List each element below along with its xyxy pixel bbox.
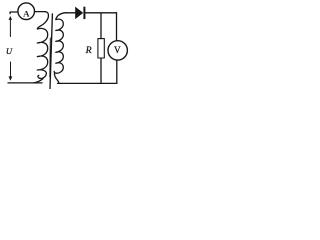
transformer T1 secondary winding (54, 13, 66, 74)
svg-text:U: U (6, 46, 13, 56)
voltage U arrow down shaft (10, 62, 12, 77)
wire bottom-left rail (8, 82, 42, 84)
voltage U arrowhead up (9, 16, 13, 20)
wire secondary top to diode (66, 12, 75, 14)
ammeter A1 circle (18, 3, 35, 20)
diode D1 cathode bar (83, 7, 85, 19)
voltmeter V1 circle (108, 41, 127, 60)
svg-text:V: V (114, 45, 121, 55)
wire primary to bottom-left rail (34, 79, 43, 83)
wire bottom-right rail (58, 82, 117, 84)
transformer core (50, 14, 52, 89)
diode D1 triangle (75, 7, 83, 20)
transformer core line left (49, 38, 52, 77)
wire R branch bottom (100, 58, 102, 83)
svg-text:R: R (85, 45, 92, 56)
transformer T1 primary winding (37, 12, 48, 79)
svg-text:A: A (23, 8, 30, 18)
voltage U arrowhead down (9, 76, 13, 80)
wire ammeter to transformer primary (35, 11, 45, 13)
wire top-right corner down to voltmeter (116, 13, 118, 41)
wire diode to top-right corner (85, 12, 116, 14)
voltage U arrow up shaft (9, 18, 11, 37)
wire secondary to bottom-right rail (54, 74, 59, 84)
wire R branch top (100, 13, 102, 38)
resistor R body (98, 39, 104, 58)
wire voltmeter bottom (116, 60, 118, 83)
wire top-left with hook (10, 12, 18, 14)
